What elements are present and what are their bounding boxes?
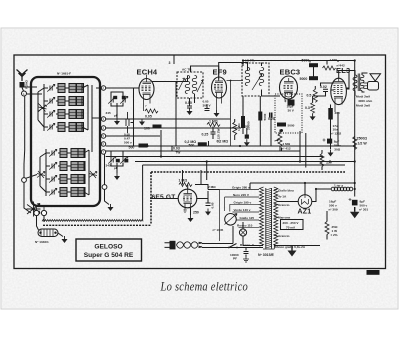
resistor 5000 (grid 2) xyxy=(300,76,319,81)
tuner terminal node t1 xyxy=(101,86,105,90)
wire ECH4 anode to IF1 xyxy=(152,66,219,146)
resistor 0.3 xyxy=(305,103,316,121)
ground (filter caps) xyxy=(350,207,360,218)
ground (AVC) xyxy=(108,204,114,211)
antenna xyxy=(17,70,28,82)
svg-text:GELOSO: GELOSO xyxy=(94,244,122,251)
speaker xyxy=(364,74,381,90)
resistor 5000 (grid 1) xyxy=(302,59,319,68)
labels Modi 2w9 4000ohm Modi 2w8 xyxy=(356,95,373,108)
RF section row 4 xyxy=(44,123,84,132)
capacitor 0.05 (IF1 grounded) xyxy=(185,98,193,115)
svg-text:250: 250 xyxy=(193,211,199,215)
electrolytic 8uF 350v xyxy=(323,139,341,157)
label Giallo 125 xyxy=(237,216,260,220)
junction dots xyxy=(146,59,355,190)
oscillator tuning fan 2 xyxy=(89,171,97,178)
ground (osc gang) xyxy=(114,173,120,180)
svg-text:Rosso 110: Rosso 110 xyxy=(237,223,253,227)
svg-text:Lo schema elettrico: Lo schema elettrico xyxy=(160,278,248,293)
capacitor 0.25 (EBC3) xyxy=(268,113,275,122)
svg-text:7 7: 7 7 xyxy=(183,209,188,213)
heater dashed boundary xyxy=(151,172,345,224)
osc section row 2 xyxy=(46,162,85,171)
node B (left side) xyxy=(22,178,27,183)
svg-text:ECH4: ECH4 xyxy=(137,68,158,77)
svg-text:1 MΩ: 1 MΩ xyxy=(237,123,241,131)
tuning gang capacitor xyxy=(27,202,41,217)
svg-text:0.3: 0.3 xyxy=(305,106,310,110)
label Arancio (top) xyxy=(274,203,289,207)
svg-text:EF9: EF9 xyxy=(213,68,227,77)
resistor 25Ω 1W xyxy=(325,211,338,240)
label Marrone xyxy=(274,216,290,220)
svg-text:nº 1262: nº 1262 xyxy=(331,132,342,136)
svg-text:FONO: FONO xyxy=(25,79,29,89)
label Nero 220 V xyxy=(225,193,259,197)
svg-text:0.05: 0.05 xyxy=(211,202,215,208)
chassis solid boundary xyxy=(143,165,345,220)
node A (antenna input) xyxy=(22,91,27,96)
label Giallo bleu xyxy=(274,189,294,193)
svg-text:30Ω: 30Ω xyxy=(334,147,340,151)
capacitor 0.05 (6E5) xyxy=(205,202,215,215)
variable capacitor C-B1 345pF xyxy=(116,159,120,163)
label Arancio (bottom) xyxy=(274,234,289,238)
osc section row 3 xyxy=(46,175,85,184)
output transformer xyxy=(353,74,364,92)
svg-text:Arancio: Arancio xyxy=(278,234,290,238)
svg-text:Nº 1046/1: Nº 1046/1 xyxy=(35,240,49,244)
resistor 500 (osc grid) xyxy=(189,142,207,147)
capacitor 0.25 xyxy=(211,127,216,140)
ground (6E5) xyxy=(188,215,194,222)
wire osc gang xyxy=(111,151,123,173)
svg-text:4000 ohm: 4000 ohm xyxy=(358,99,373,103)
svg-text:2500Ω: 2500Ω xyxy=(357,137,368,141)
tube EF9 xyxy=(212,74,244,146)
svg-text:Modi 2w9: Modi 2w9 xyxy=(356,95,370,99)
electrolytic 8uF 500v nº301 xyxy=(359,200,368,212)
power transformer core xyxy=(266,188,272,249)
oscillator coil Nº1046/1 xyxy=(38,229,58,237)
svg-text:0.5: 0.5 xyxy=(307,94,312,98)
tube 6E5 GT magic eye xyxy=(178,189,197,213)
transformer secondary winding xyxy=(274,187,278,246)
resistor 500 (EBC3) xyxy=(258,112,262,121)
IF transformer 2 xyxy=(242,59,269,97)
heater wire 6.3v xyxy=(243,246,320,253)
bus wire y151 xyxy=(106,150,300,152)
svg-text:nº 309: nº 309 xyxy=(329,208,338,212)
wire EL3 anode to output transformer xyxy=(339,71,368,97)
resistor 150 xyxy=(320,150,332,170)
heater dashed line left xyxy=(42,220,143,222)
resistor 1 MΩ nº442 xyxy=(323,58,345,70)
svg-text:0,2 MΩ: 0,2 MΩ xyxy=(185,140,197,144)
wire osc coil arrow xyxy=(37,216,64,237)
tube EL3 xyxy=(331,78,347,112)
osc section row 4 xyxy=(46,188,85,197)
transformer primary winding xyxy=(260,187,264,246)
label 4v 1A xyxy=(274,195,287,199)
svg-text:AZ1: AZ1 xyxy=(298,209,312,216)
osc section bus wires xyxy=(40,149,89,196)
svg-text:Marrone: Marrone xyxy=(278,216,290,220)
svg-text:0.05: 0.05 xyxy=(145,115,152,119)
svg-text:70 mA: 70 mA xyxy=(286,226,296,230)
svg-text:Grigio 280 v: Grigio 280 v xyxy=(232,185,250,189)
wire 6E5 xyxy=(150,170,220,215)
svg-text:5000: 5000 xyxy=(300,77,308,81)
oscillator tuning fan 1 xyxy=(37,171,45,178)
variable capacitor C-A1 345pF xyxy=(108,96,116,103)
node 1 terminal xyxy=(34,210,39,215)
label 0.125 ZW xyxy=(217,129,221,142)
capacitor 0.02 xyxy=(320,85,328,92)
labels 12v 10v nº1262 xyxy=(331,124,342,136)
svg-text:± 2%: ± 2% xyxy=(331,233,338,237)
voltage selector xyxy=(225,214,238,226)
heater dashed bottom xyxy=(43,224,151,226)
filter choke 1 ter a xyxy=(316,184,353,191)
svg-text:Nº 3015/E: Nº 3015/E xyxy=(258,253,275,257)
rectifier AZ1 xyxy=(298,195,312,209)
mains cord twisted xyxy=(177,242,199,248)
variable capacitor C-B2 345pF xyxy=(124,159,128,163)
resistor 2500Ω 1/2W xyxy=(353,137,368,150)
svg-text:1 MΩ: 1 MΩ xyxy=(209,120,218,124)
svg-text:0.05: 0.05 xyxy=(185,101,192,105)
svg-text:200: 200 xyxy=(335,111,340,115)
svg-text:2 MΩ: 2 MΩ xyxy=(208,185,216,189)
svg-text:5000: 5000 xyxy=(263,113,267,120)
capacitor 10000 pF xyxy=(230,248,249,263)
svg-text:Super G 504 RE: Super G 504 RE xyxy=(84,252,134,259)
svg-text:345: 345 xyxy=(106,164,111,168)
svg-text:Modi 2w8: Modi 2w8 xyxy=(356,104,370,108)
resistor 5000 (EBC3 cathode) xyxy=(277,123,295,128)
outer schematic frame xyxy=(14,55,386,269)
wire AVC down left xyxy=(105,154,110,204)
svg-text:6E5 GT: 6E5 GT xyxy=(152,194,176,201)
resistor 1 MΩ (6E5 grid) xyxy=(179,179,193,187)
dotted box EBC3 cathode network xyxy=(275,94,302,133)
svg-text:500 v: 500 v xyxy=(124,141,132,145)
osc section row 1 xyxy=(46,149,85,158)
label Rosso 110 xyxy=(237,223,259,227)
svg-text:EBC3: EBC3 xyxy=(280,68,301,77)
svg-text:200 - 250 V: 200 - 250 V xyxy=(283,221,300,225)
wire RF gang xyxy=(106,88,139,118)
mains switch xyxy=(228,244,263,249)
resistor 25000 xyxy=(241,116,251,130)
tuner terminal node t5 xyxy=(101,142,105,146)
svg-text:Nero 220 V: Nero 220 V xyxy=(233,193,250,197)
wire antenna down left side xyxy=(22,87,42,213)
primary tap bracket wires xyxy=(220,190,233,242)
svg-text:3: 3 xyxy=(169,61,171,65)
antenna coupling coil xyxy=(20,82,25,88)
resistor 0.5 xyxy=(307,89,318,102)
tuner unit box Nº1691-F xyxy=(31,77,100,206)
wire verticals mid xyxy=(134,72,350,181)
label Grigio 280 v xyxy=(220,185,260,189)
tuner terminal node t4 xyxy=(101,134,105,138)
electrolytic 16uF 500v nº309 xyxy=(329,198,358,212)
ground (power) xyxy=(288,246,297,257)
svg-text:5000: 5000 xyxy=(288,124,295,128)
label Grigio 190 v xyxy=(230,200,259,204)
RF section row 3 xyxy=(44,110,84,119)
band switch wafer contacts xyxy=(39,105,47,112)
wire AZ1 xyxy=(277,183,316,202)
tuner terminal node t6 xyxy=(101,150,105,154)
tuner terminal node t2 xyxy=(101,117,105,121)
label Bianco 0 xyxy=(240,243,254,247)
RF section bus wires xyxy=(38,84,100,152)
svg-text:Arancio: Arancio xyxy=(278,203,290,207)
bus wire y146 xyxy=(106,145,355,147)
svg-text:1/2 W: 1/2 W xyxy=(358,142,368,146)
pilot lamp xyxy=(239,222,246,246)
tube EBC3 xyxy=(280,76,298,100)
GELOSO Super G 504 RE label box xyxy=(76,239,142,261)
svg-text:Grigio 190 v: Grigio 190 v xyxy=(234,200,252,204)
svg-text:nº 301: nº 301 xyxy=(359,208,368,212)
resistor 1 MΩ xyxy=(207,123,220,127)
RF section row 1: trimmer + coils xyxy=(44,84,84,93)
label 0.05 0.47 500 v xyxy=(124,133,132,145)
svg-text:1946: 1946 xyxy=(368,271,376,275)
svg-text:Giallo bleu: Giallo bleu xyxy=(278,189,294,193)
wire EF9 anode to IF2 xyxy=(219,63,280,97)
svg-text:0.125 ZW: 0.125 ZW xyxy=(217,129,221,142)
resistor 1 MΩ (AVC) xyxy=(233,119,241,140)
svg-text:nº 412: nº 412 xyxy=(282,146,291,150)
electrolytic 10uF 30v xyxy=(284,100,295,113)
label Verde 140 v xyxy=(233,208,260,212)
bus wire y156 xyxy=(106,156,322,158)
node 6 (AVC) xyxy=(102,185,107,190)
resistor 100 xyxy=(153,125,162,129)
mains plug xyxy=(165,241,176,250)
resistor 0.05 under ECH4 xyxy=(145,109,158,113)
resistor 200 (EL3 cathode) xyxy=(328,105,340,150)
capacitor 0.03 xyxy=(173,146,180,154)
capacitor 0.035 xyxy=(242,125,250,147)
bus wire t2 t3 xyxy=(106,119,241,136)
svg-text:Giallo 125: Giallo 125 xyxy=(240,216,255,220)
HV rail wire xyxy=(250,183,355,189)
ground (RF gang) xyxy=(114,118,120,125)
svg-text:0.02: 0.02 xyxy=(320,85,327,89)
tuner terminal node t3 xyxy=(101,126,105,130)
IF transformer 1 xyxy=(177,68,203,99)
variable capacitor C-A2 345pF xyxy=(120,96,128,103)
svg-text:Nº 1691-F: Nº 1691-F xyxy=(57,72,71,76)
B+ rail vertical xyxy=(243,61,355,197)
svg-text:PF: PF xyxy=(233,257,237,261)
HT box 200-250V 70mA xyxy=(281,220,304,230)
resistor 500 xyxy=(139,144,148,148)
volume potentiometer 1 MΩ nº412 xyxy=(275,129,291,150)
node 2 terminal xyxy=(41,210,46,215)
svg-text:345: 345 xyxy=(106,111,111,115)
svg-text:Verde 140 v: Verde 140 v xyxy=(234,208,251,212)
RF section row 2 xyxy=(44,97,84,106)
wire mains to switch xyxy=(199,226,237,248)
svg-text:4v 1A: 4v 1A xyxy=(278,195,287,199)
svg-text:30 V: 30 V xyxy=(288,109,295,113)
label Bianco giallo 6,3v-2A xyxy=(263,245,306,249)
tube ECH4 xyxy=(139,75,154,112)
svg-text:0.25: 0.25 xyxy=(202,133,209,137)
capacitor 0.05 300V xyxy=(203,100,220,118)
capacitor 0.05 0.47 500v xyxy=(126,112,134,133)
bus wire y161 xyxy=(135,161,355,163)
svg-text:nº 1045: nº 1045 xyxy=(213,228,224,232)
junction dot t3 bus xyxy=(230,127,232,129)
terminal 3 at top xyxy=(169,56,175,66)
corner stamp box xyxy=(367,270,380,275)
ground (ECH4 cathode) xyxy=(139,119,145,126)
svg-text:0.05: 0.05 xyxy=(242,125,248,129)
